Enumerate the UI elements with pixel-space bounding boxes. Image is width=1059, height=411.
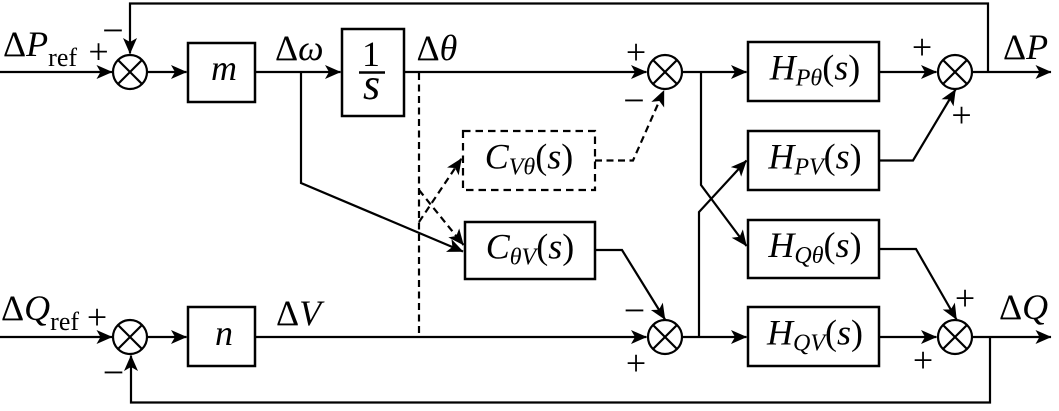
- svg-text:Δθ: Δθ: [417, 28, 458, 68]
- svg-text:−: −: [624, 290, 645, 332]
- wire: d-theta line from 1/s to sum S2: [404, 71, 647, 73]
- wire: H_PV up into S3: [879, 90, 956, 161]
- svg-text:ΔQ: ΔQ: [999, 287, 1048, 327]
- wire: dV line from n to sum S5: [255, 336, 647, 338]
- svg-text:+: +: [913, 340, 933, 380]
- summing junction S2: [648, 55, 682, 89]
- wire: dashed output of C_Vtheta into S2 (minus): [595, 91, 664, 161]
- svg-text:ΔP: ΔP: [1003, 27, 1048, 67]
- wire: dashed vertical between theta line and V line: [418, 73, 420, 336]
- svg-text:+: +: [87, 297, 107, 337]
- gain block m: [188, 43, 255, 102]
- block H_Ptheta: [748, 42, 879, 101]
- wire: m to 1/s: [255, 71, 341, 73]
- wire: top feedback from dP output to sum S1: [130, 4, 988, 73]
- wire: theta bus down into H_Qtheta: [701, 72, 747, 246]
- wire: H_Qtheta down into S6: [879, 249, 957, 320]
- svg-text:−: −: [623, 80, 644, 122]
- summing junction S1: [113, 55, 147, 89]
- wire: bottom feedback from dQ output into S4: [131, 337, 990, 403]
- summing junction S3: [938, 55, 972, 89]
- wire: dP_ref input into S1: [0, 71, 112, 73]
- svg-text:+: +: [912, 27, 932, 67]
- wire: dashed diagonal into C_Vtheta: [419, 159, 462, 223]
- wire: V bus up into H_PV: [699, 161, 747, 338]
- svg-text:−: −: [103, 352, 124, 394]
- block H_PV: [748, 131, 879, 190]
- coupling block C_thetaV: [465, 222, 595, 279]
- wire: branch of d-omega down to C_thetaV: [301, 72, 463, 252]
- svg-text:+: +: [955, 278, 975, 318]
- summing junction S5: [648, 320, 682, 354]
- summing junction S4: [113, 320, 147, 354]
- wire: S5 to H_QV: [682, 336, 747, 338]
- svg-text:+: +: [951, 95, 971, 135]
- wire: H_Ptheta to sum S3: [879, 71, 937, 73]
- wire: dP output: [972, 71, 1051, 73]
- svg-text:Δω: Δω: [275, 28, 324, 68]
- svg-text:ΔV: ΔV: [276, 293, 325, 333]
- wire: S2 to H_Ptheta: [682, 71, 747, 73]
- wire: H_QV to sum S6: [879, 336, 937, 338]
- svg-text:m: m: [211, 48, 237, 88]
- wire: C_thetaV output into S5 (minus): [595, 250, 665, 320]
- svg-text:+: +: [626, 32, 646, 72]
- svg-text:n: n: [215, 313, 233, 353]
- wire: S4 to block n: [147, 336, 187, 338]
- summing junction S6: [938, 320, 972, 354]
- wire: dQ output: [972, 336, 1051, 338]
- wire: dashed diagonal into C_thetaV: [419, 190, 464, 245]
- wire: S1 to block m: [147, 71, 187, 73]
- coupling block C_Vtheta (dashed): [463, 131, 595, 190]
- integrator block 1/s: [342, 29, 404, 116]
- block H_QV: [748, 307, 879, 366]
- gain block n: [188, 307, 255, 366]
- svg-text:s: s: [363, 60, 380, 109]
- block H_Qtheta: [748, 220, 879, 278]
- svg-text:−: −: [102, 10, 123, 52]
- wire: dQ_ref input into S4: [0, 336, 112, 338]
- svg-text:+: +: [626, 343, 646, 383]
